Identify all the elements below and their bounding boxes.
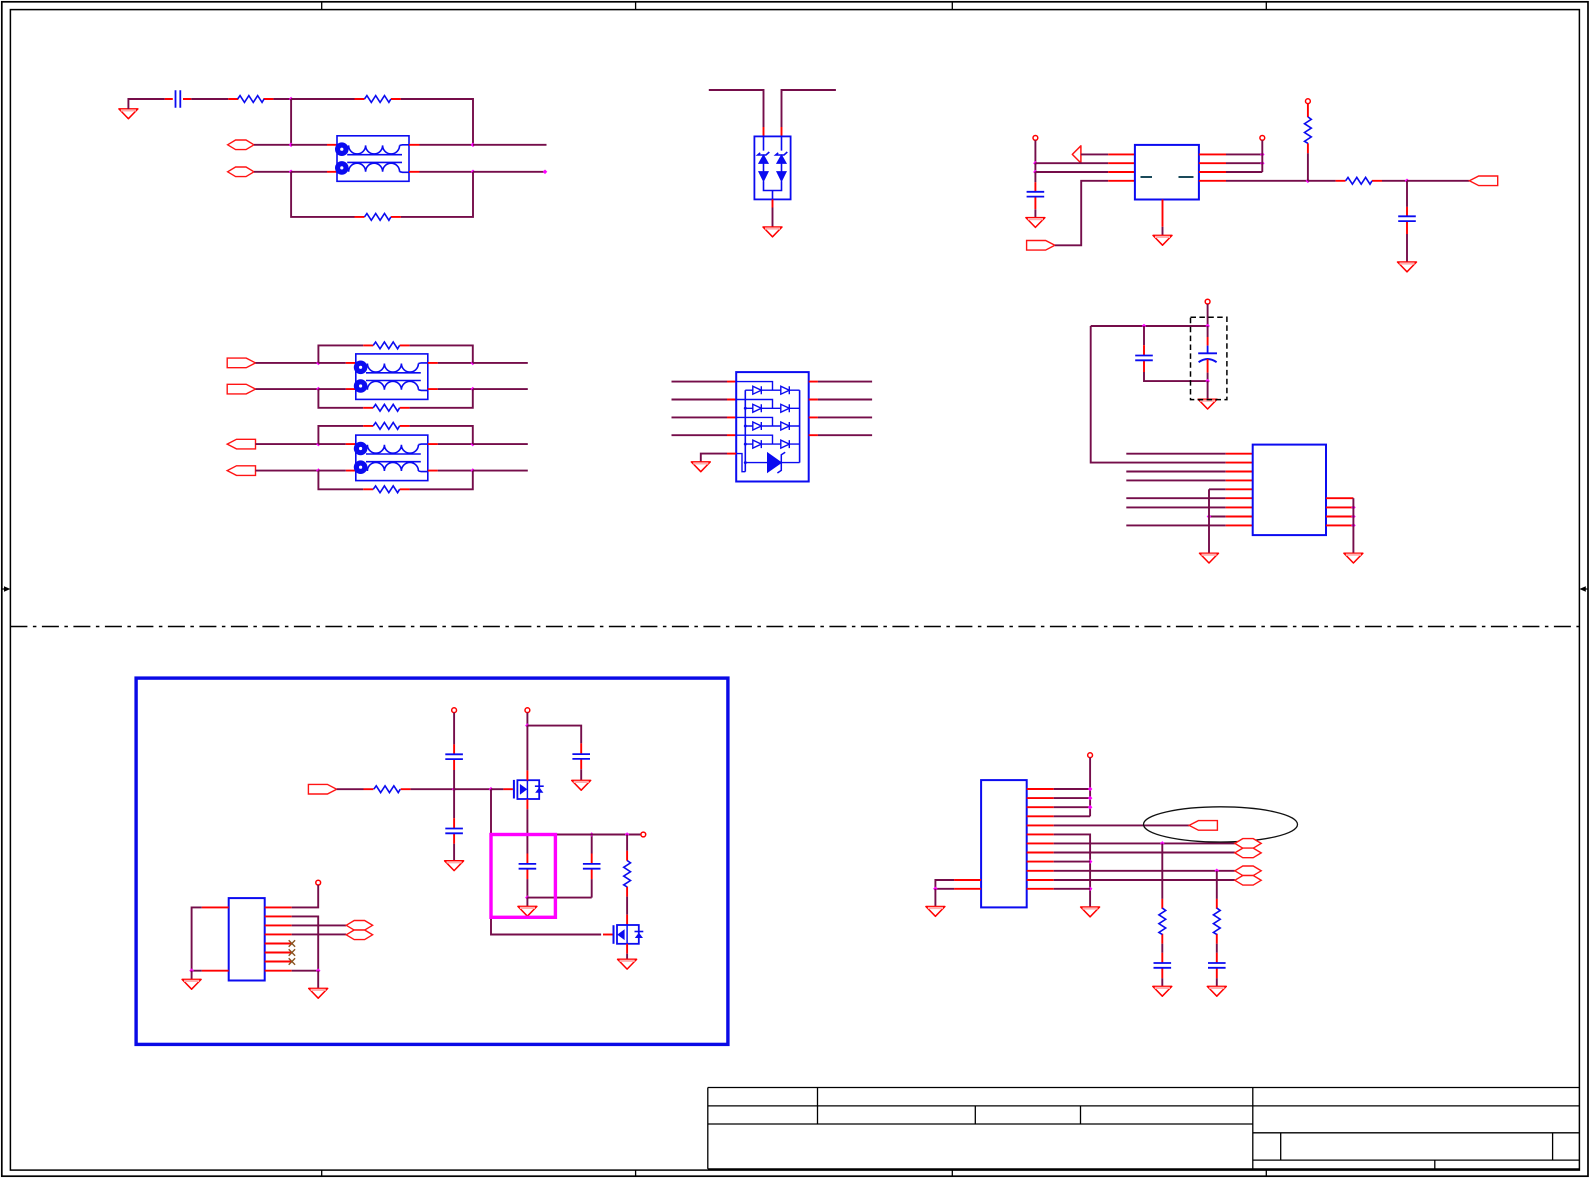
wire: [1207, 381, 1209, 399]
ground: [691, 462, 710, 472]
capacitor C4: [1135, 345, 1153, 372]
power pin circle: [1088, 753, 1093, 758]
wire: [438, 388, 473, 390]
resistor R6: [363, 342, 409, 349]
ground: [518, 906, 537, 916]
pin: [1199, 154, 1226, 180]
wire: [626, 954, 628, 960]
node junction: [1207, 514, 1212, 519]
wire: [273, 98, 291, 100]
wire: [1308, 180, 1336, 182]
title block outline: [708, 1088, 1580, 1169]
port tag: [1027, 241, 1055, 251]
wire: [420, 171, 474, 173]
bidirectional connector pair: [1235, 839, 1261, 858]
pin: [1108, 153, 1135, 155]
wire: [1209, 516, 1226, 518]
ground: [445, 861, 464, 871]
wire: [1216, 871, 1218, 899]
DNP dashed box: [1191, 317, 1227, 399]
node junction: [471, 170, 476, 175]
power pin circle: [1205, 299, 1210, 304]
border zone ticks bottom: [322, 1170, 1267, 1176]
pin: [503, 788, 513, 790]
node junction: [1351, 523, 1356, 528]
resistor R4: [1336, 177, 1382, 184]
node junction: [1033, 161, 1038, 166]
wire: [1307, 153, 1309, 181]
node junction: [471, 442, 476, 447]
title block right rows: [1253, 1105, 1580, 1107]
ground: [618, 959, 637, 969]
node junction: [471, 361, 476, 366]
wire: [318, 443, 345, 445]
IC U5: [981, 780, 1027, 907]
port tag: [1469, 176, 1497, 186]
resistor R8: [363, 423, 409, 430]
wire: [1055, 181, 1108, 246]
wire: [1161, 978, 1163, 986]
pin: [1108, 180, 1135, 182]
wire: [1054, 815, 1090, 817]
node junction: [1215, 869, 1220, 874]
bidirectional connector pair: [346, 921, 372, 940]
power pin circle: [1306, 99, 1311, 104]
node junction: [1405, 179, 1410, 184]
ground: [1198, 399, 1217, 409]
ground: [1026, 218, 1045, 228]
bidirectional connector pair: [1235, 866, 1261, 885]
ground: [763, 227, 782, 237]
node junction: [1088, 796, 1093, 801]
ground: [1398, 262, 1417, 272]
wire: [1207, 373, 1209, 382]
resistor R5: [1305, 104, 1312, 154]
ground: [572, 780, 591, 790]
wire: [1208, 489, 1210, 553]
node junction: [316, 968, 321, 973]
node junction: [289, 97, 294, 102]
node junction: [1306, 179, 1311, 184]
IC U4: [229, 898, 265, 980]
wire: [438, 470, 473, 472]
wire: [1091, 325, 1208, 327]
capacitor C2: [1027, 182, 1045, 209]
wire: [401, 99, 473, 145]
wire: [291, 98, 354, 100]
title block left rows: [708, 1105, 1253, 1107]
wire: [453, 770, 455, 789]
pin: [327, 145, 337, 172]
wire: [318, 426, 363, 444]
wire: [454, 788, 491, 790]
pin: [346, 363, 356, 389]
resistor R13: [1213, 899, 1220, 944]
diode array D1 (dual zener pair): [754, 136, 790, 199]
resistor R9: [363, 486, 409, 493]
wire: [1034, 163, 1036, 172]
wire: [591, 879, 593, 898]
node junction: [316, 442, 321, 447]
wire: [1091, 326, 1226, 463]
node junction: [289, 143, 294, 148]
pin: [626, 944, 628, 954]
wire: [256, 388, 319, 390]
pin: [1108, 162, 1135, 164]
wire: [1352, 498, 1354, 553]
no-connect X: [289, 958, 295, 964]
wire: [292, 933, 347, 935]
capacitor C5 polarized: [1198, 337, 1217, 373]
wire: [1144, 372, 1208, 381]
wire: [318, 389, 363, 408]
pin: [764, 127, 782, 136]
node junction: [1260, 152, 1265, 157]
wire: [256, 362, 319, 364]
wire: [1216, 978, 1218, 986]
power pin circle: [1033, 136, 1038, 141]
node junction: [1142, 324, 1147, 329]
wire: [318, 471, 363, 490]
ground: [309, 988, 328, 998]
resistor R1: [228, 96, 273, 103]
power section outline blue box: [136, 678, 728, 1044]
wire: [453, 713, 455, 745]
wire: [438, 362, 473, 364]
no-connect X: [289, 940, 295, 946]
capacitor C12: [1208, 953, 1226, 978]
wire: [1054, 788, 1090, 790]
node junction: [1033, 170, 1038, 175]
wire: [1406, 234, 1408, 262]
node junction: [1160, 841, 1165, 846]
wire: [626, 835, 628, 851]
node junction: [1351, 505, 1356, 510]
node junction: [933, 887, 938, 892]
wire: [191, 98, 228, 100]
wire: [1382, 180, 1407, 182]
transistor Q2 MOSFET: [614, 925, 644, 944]
wire: [1054, 834, 1090, 907]
ground: [926, 907, 945, 917]
ground: [1344, 553, 1363, 563]
wire: [292, 970, 319, 972]
wire: [1226, 180, 1308, 182]
no-connect X: [289, 949, 295, 955]
wire: [701, 454, 727, 462]
pin: [202, 907, 229, 970]
wire: [1161, 944, 1163, 953]
node junction: [589, 832, 594, 837]
node junction: [489, 787, 494, 792]
pin: [1162, 200, 1164, 227]
wire: [1089, 758, 1091, 817]
transistor Q1 MOSFET: [514, 780, 544, 799]
wire: [473, 470, 528, 472]
power pin circle: [452, 708, 457, 713]
wire: [1207, 326, 1209, 337]
pin name mark: [1141, 176, 1153, 178]
wire: [1054, 842, 1235, 844]
resistor R11: [624, 851, 631, 897]
off-page arrow: [1072, 146, 1081, 163]
wire: [411, 788, 455, 790]
wire: [290, 99, 292, 145]
wire: [292, 885, 319, 907]
wire: [1226, 153, 1262, 155]
wire: [1054, 888, 1090, 890]
port connector: [228, 140, 254, 150]
port tag: [227, 384, 255, 394]
wire: [317, 971, 319, 989]
wire: [254, 144, 291, 146]
wire: [256, 443, 319, 445]
wire: [401, 172, 473, 217]
wire: [1035, 162, 1108, 164]
resistor R12: [1159, 899, 1166, 944]
ground: [1153, 986, 1172, 996]
wire: [526, 879, 528, 898]
wire: [318, 362, 345, 364]
wire: [292, 924, 347, 926]
node junction: [1088, 805, 1093, 810]
transformer L2 common-mode choke: [354, 354, 428, 400]
IC U2 ESD diode array: [736, 372, 809, 481]
node junction: [525, 895, 530, 900]
wire gate net: [491, 789, 601, 934]
wire: [420, 144, 474, 146]
node junction: [1088, 787, 1093, 792]
ground: [119, 109, 138, 119]
wire: [1126, 454, 1225, 526]
wire: [128, 99, 164, 109]
wire: [818, 382, 872, 436]
wire: [526, 809, 528, 853]
power pin circle: [316, 880, 321, 885]
wire rail: [555, 834, 641, 836]
wire: [192, 907, 202, 970]
wire: [453, 844, 455, 861]
wire: [473, 443, 528, 445]
pin: [409, 145, 420, 172]
wire: [410, 471, 473, 490]
wire: [1054, 824, 1189, 826]
wire: [527, 726, 581, 744]
wire: [1226, 162, 1262, 164]
wire: [1054, 870, 1235, 872]
IC U1 regulator: [1135, 145, 1199, 200]
wire: [672, 382, 728, 436]
wire: [410, 345, 473, 363]
wire: [1054, 797, 1090, 799]
wire: [526, 898, 528, 907]
wire: [292, 916, 319, 970]
node junction: [471, 143, 476, 148]
capacitor C9: [519, 854, 537, 880]
node junction: [316, 361, 321, 366]
wire: [1035, 171, 1108, 173]
wire: [1054, 852, 1235, 854]
pin: [809, 382, 818, 436]
node junction: [543, 170, 548, 175]
port tag: [227, 358, 255, 368]
wire: [772, 208, 774, 228]
wire: [1226, 171, 1262, 173]
wire: [318, 388, 345, 390]
wire: [191, 971, 193, 980]
wire: [473, 144, 547, 146]
pin: [265, 907, 292, 970]
wire: [591, 835, 593, 854]
wire: [580, 769, 582, 780]
wire: [782, 90, 836, 127]
wire: [1143, 326, 1145, 345]
wire: [318, 470, 345, 472]
pin: [1226, 454, 1253, 526]
border zone arrow right: [1579, 586, 1588, 592]
wire: [291, 172, 354, 217]
pin: [727, 382, 736, 436]
wire: [1034, 209, 1036, 217]
wire: [1081, 153, 1108, 155]
port tag: [1189, 821, 1217, 831]
wire: [438, 443, 473, 445]
capacitor C11: [1154, 953, 1172, 978]
module outline magenta box: [491, 835, 555, 918]
resistor R2: [355, 96, 401, 103]
pin: [772, 199, 774, 207]
port tag: [227, 466, 255, 476]
wire: [1034, 140, 1036, 163]
ground: [1081, 907, 1100, 917]
wire: [1406, 181, 1408, 207]
node junction: [316, 468, 321, 473]
node junction: [289, 170, 294, 175]
node junction: [471, 468, 476, 473]
wire: [1054, 861, 1090, 863]
wire: [1162, 227, 1164, 236]
ground: [1200, 553, 1219, 563]
wire: [1407, 180, 1469, 182]
wire: [491, 788, 503, 790]
capacitor C7: [445, 818, 463, 844]
section divider dash-dot line: [10, 626, 1579, 628]
wire: [318, 345, 363, 363]
node junction: [1205, 324, 1210, 329]
resistor R3: [355, 214, 401, 221]
pin: [526, 799, 528, 809]
transformer L1 common-mode choke: [335, 136, 409, 182]
pin: [727, 453, 736, 455]
wire: [1054, 879, 1235, 881]
wire: [453, 789, 455, 818]
port tag: [308, 784, 336, 794]
wire: [337, 788, 364, 790]
power pin circle: [525, 708, 530, 713]
pin: [603, 934, 613, 936]
pin: [428, 363, 438, 389]
wire: [291, 144, 327, 146]
capacitor C3: [1398, 207, 1416, 234]
wire: [1054, 806, 1090, 808]
wire: [1261, 140, 1263, 172]
resistor R10: [364, 786, 411, 793]
wire: [526, 713, 528, 726]
transformer L3 common-mode choke: [354, 435, 428, 481]
port tag: [227, 439, 255, 449]
ground: [1153, 235, 1172, 245]
node junction: [625, 832, 630, 837]
wire: [626, 897, 628, 915]
wire: [709, 90, 764, 127]
wire: [526, 726, 528, 771]
wire: [473, 171, 545, 173]
node junction: [525, 723, 530, 728]
wire: [935, 880, 954, 889]
pin: [954, 880, 981, 889]
wire: [291, 171, 327, 173]
ground: [182, 979, 201, 989]
node junction: [1088, 859, 1093, 864]
wire: [1161, 843, 1163, 899]
border zone ticks top: [322, 2, 1267, 10]
ground: [1207, 986, 1226, 996]
wire: [1207, 304, 1209, 326]
node junction: [1205, 379, 1210, 384]
wire: [934, 889, 936, 907]
power pin circle: [641, 832, 646, 837]
pin: [1108, 171, 1135, 173]
wire: [410, 426, 473, 444]
pin: [1027, 789, 1054, 889]
highlight ellipse: [1144, 807, 1298, 842]
wire: [1034, 172, 1036, 182]
node junction: [452, 787, 457, 792]
capacitor C6: [445, 744, 463, 770]
wire: [1209, 488, 1226, 490]
wire: [1216, 944, 1218, 953]
IC U3: [1253, 445, 1326, 535]
pin: [526, 770, 528, 780]
pin name mark: [1179, 176, 1194, 178]
power pin circle: [1260, 136, 1265, 141]
node junction: [189, 968, 194, 973]
wire: [473, 388, 528, 390]
border zone arrow left: [2, 586, 11, 592]
capacitor C10: [583, 854, 601, 880]
capacitor C1: [165, 90, 192, 108]
pin: [346, 444, 356, 471]
node junction: [1088, 887, 1093, 892]
wire: [473, 362, 528, 364]
resistor R7: [363, 404, 409, 411]
node junction: [471, 387, 476, 392]
pin: [626, 915, 628, 925]
wire: [256, 470, 319, 472]
pin: [1326, 498, 1353, 525]
wire: [527, 897, 591, 899]
port connector: [228, 167, 254, 177]
node junction: [1260, 161, 1265, 166]
node junction: [1351, 514, 1356, 519]
pin: [428, 444, 438, 471]
node junction: [316, 387, 321, 392]
wire: [254, 171, 291, 173]
wire: [410, 389, 473, 408]
capacitor C8: [572, 743, 590, 769]
